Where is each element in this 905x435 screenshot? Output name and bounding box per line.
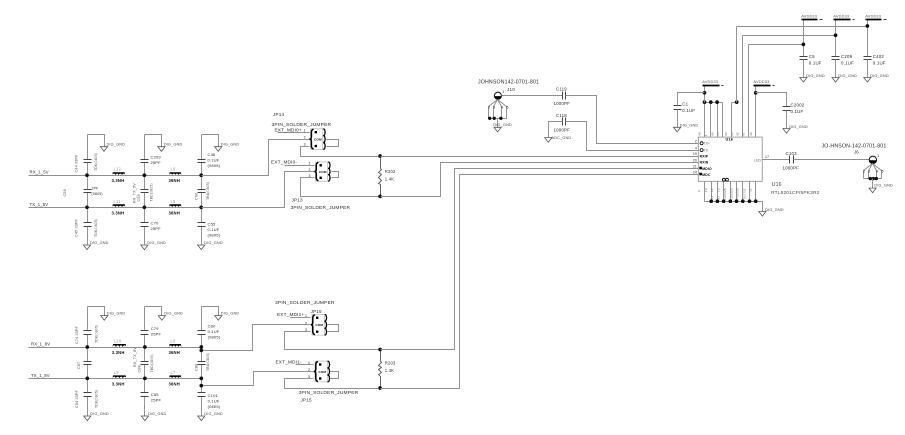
svg-text:0.1UF: 0.1UF [682,108,695,113]
ground top [100,143,125,152]
wire JP15 pin3 to MDI line [285,379,381,389]
svg-text:C84 33PF: C84 33PF [75,389,79,408]
svg-text:2: 2 [863,170,865,174]
svg-text:C85: C85 [151,392,159,397]
ground bottom [83,241,108,250]
svg-text:JP16: JP16 [311,309,322,314]
svg-text:DIG_GND: DIG_GND [221,143,240,147]
wire MDI0- to PHY [381,163,699,197]
svg-text:DIG_GND: DIG_GND [870,74,889,78]
capacitor C79 column [141,307,162,348]
svg-text:4: 4 [876,170,878,174]
svg-text:24: 24 [693,170,697,174]
svg-text:2: 2 [488,106,490,110]
svg-text:AVDD33: AVDD33 [801,14,817,19]
net stub EXT_MDI0+ [278,132,302,134]
svg-text:1000PF: 1000PF [554,101,571,106]
svg-text:TBD(0805): TBD(0805) [150,354,154,372]
ground top [101,312,126,321]
capacitor C88 between lines [141,348,149,379]
IC bottom pin wires and ground bus [705,182,763,212]
capacitor C44 column [84,135,105,176]
svg-text:TBD(0805): TBD(0805) [150,183,154,201]
ground top [158,143,183,152]
svg-text:48: 48 [698,132,702,136]
svg-text:2: 2 [309,168,311,172]
svg-text:C55: C55 [208,222,216,227]
resistor R202 [379,157,397,197]
ground at IC bottom bus [759,212,766,217]
wire MDI1+ to PHY [381,169,699,350]
svg-text:C6: C6 [809,54,815,59]
svg-text:C209: C209 [841,54,853,59]
svg-text:DIG_GND: DIG_GND [806,74,825,78]
svg-text:RX_1_8V: RX_1_8V [31,342,50,347]
svg-text:RX_TX_5V: RX_TX_5V [133,183,137,203]
ground at C402 [864,78,871,83]
svg-text:C48: C48 [208,152,216,157]
power flag AVDD33 at C6 [803,20,805,57]
svg-text:(0805): (0805) [208,335,221,340]
svg-text:2: 2 [304,136,306,140]
wire C103 to J6 [794,159,870,161]
wire J10 pin1 to C119 [502,95,563,97]
svg-text:AVDD33: AVDD33 [754,79,770,84]
wire MDI0+ to PHY [381,156,699,158]
svg-text:0.1UF: 0.1UF [208,399,220,404]
rail wires up from IC pins [736,27,738,103]
net stub EXT_MDI1+ [291,317,303,319]
capacitor C59 between lines [141,176,149,208]
svg-text:C79: C79 [151,326,159,331]
svg-text:C402: C402 [873,54,885,59]
ground at C1 [674,127,681,132]
junction dots [85,173,89,177]
junction dots [199,345,203,349]
svg-text:DIG_GND: DIG_GND [493,123,512,127]
svg-text:C80: C80 [208,324,216,329]
capacitor C60 between lines [198,176,206,208]
svg-text:L9: L9 [114,370,120,375]
svg-text:TDK(0805): TDK(0805) [94,219,98,237]
capacitor C101 to bottom ground [198,379,206,417]
junction dots [199,173,203,177]
svg-text:COM: COM [319,170,327,174]
ground bottom [141,412,166,421]
capacitor C103 [783,151,800,171]
capacitor C119 [554,87,571,107]
capacitor C49 column [141,135,162,176]
svg-text:JP13: JP13 [292,198,303,203]
svg-text:L10: L10 [114,339,122,344]
svg-text:3PIN_SOLDER_JUMPER: 3PIN_SOLDER_JUMPER [299,390,359,396]
svg-text:5: 5 [881,170,883,174]
svg-text:(0805): (0805) [92,192,103,196]
capacitor C402 [864,54,886,78]
svg-text:COM: COM [314,137,322,141]
junction dots R202 [378,154,382,158]
svg-text:C103: C103 [786,151,798,156]
wire bus A1 to JP14 pin2 [202,140,302,176]
inductor L9 [111,370,128,387]
net label RX_1_8V [29,347,88,349]
ground top [158,312,183,321]
svg-text:C58: C58 [63,189,67,196]
wire C119 to PHY pin [566,96,699,144]
wire bus A2 to JP13 pin2 [202,172,307,208]
svg-text:DIG_GND: DIG_GND [107,312,126,316]
svg-text:TX_1_8V: TX_1_8V [31,373,50,378]
svg-text:4: 4 [501,106,503,110]
svg-text:36NH: 36NH [169,350,180,355]
capacitor C1 branch [674,93,705,128]
svg-text:32: 32 [749,188,753,192]
svg-text:AVDD33: AVDD33 [702,79,718,84]
rail 3 [749,44,804,46]
junction dots R203 [378,348,382,352]
svg-text:L5: L5 [171,199,177,204]
net stub EXT_MDI1- [296,364,306,366]
svg-text:DIG_GND: DIG_GND [147,241,166,245]
svg-text:19: 19 [693,152,697,156]
svg-text:DIG_GND: DIG_GND [90,412,109,416]
svg-text:ADC_GND: ADC_GND [552,136,572,140]
svg-text:C2002: C2002 [791,102,805,107]
svg-text:DIG_GND: DIG_GND [107,143,126,147]
svg-text:2PF: 2PF [92,187,99,191]
svg-text:LED1: LED1 [729,192,733,200]
svg-text:MDC: MDC [702,173,711,177]
svg-text:TDK(0805): TDK(0805) [94,153,98,171]
wire C118 left to AGND [549,122,563,138]
svg-text:3PIN_SOLDER_JUMPER: 3PIN_SOLDER_JUMPER [272,122,332,128]
junction dots [85,345,89,349]
solder jumper JP13 symbol [307,162,339,182]
svg-text:3: 3 [305,328,307,332]
svg-text:COM: COM [318,370,326,374]
svg-text:C45 33PF: C45 33PF [75,218,79,237]
svg-text:44: 44 [724,132,728,136]
svg-text:45: 45 [716,132,720,136]
svg-text:(0805): (0805) [208,404,221,409]
ground bottom [141,241,166,250]
svg-text:DIG_GND: DIG_GND [164,312,183,316]
svg-text:R202: R202 [385,169,396,174]
ground at C6 [800,78,807,83]
svg-text:COM: COM [315,323,323,327]
svg-text:TX_1_5V: TX_1_5V [30,202,49,207]
capacitor C2002 branch [756,93,805,129]
svg-text:DIG_GND: DIG_GND [680,124,699,128]
op IC body U16 [698,137,762,181]
svg-text:5: 5 [506,106,508,110]
solder jumper JP16 symbol [303,314,339,335]
power flag AVDD33 at C209 [835,20,837,57]
svg-text:0.1UF: 0.1UF [873,61,886,66]
svg-text:DIG_GND: DIG_GND [789,125,808,129]
rail 2 [743,35,836,37]
svg-text:36NH: 36NH [169,381,180,386]
svg-text:X2: X2 [716,195,720,199]
svg-text:DIG_GND: DIG_GND [221,312,240,316]
svg-text:R203: R203 [385,361,396,366]
capacitor C85 to bottom ground [141,379,149,417]
svg-text:C74 33PF: C74 33PF [75,325,79,344]
power flag AVDD33 at C402 [867,20,869,57]
capacitor C84 to bottom ground [84,379,92,417]
capacitor C70 to bottom ground [141,208,149,246]
svg-text:1: 1 [309,162,311,166]
net stub EXT_MDI0- [285,165,307,167]
svg-text:3.3NH: 3.3NH [112,381,125,386]
svg-text:1.4K: 1.4K [385,177,394,182]
ground at C209 [832,78,839,83]
inductor L5 [168,199,184,216]
rail 1 [737,26,868,28]
svg-text:20: 20 [693,158,697,162]
svg-text:10: 10 [704,188,708,192]
inductor L8 [168,339,184,356]
solder jumper JP14 symbol [302,129,339,150]
svg-text:RX_TX_8V: RX_TX_8V [133,347,137,367]
IC bottom edge bubbles [722,178,725,181]
svg-text:4: 4 [695,146,697,150]
svg-text:C101: C101 [208,393,219,398]
svg-text:26: 26 [729,188,733,192]
wire bus B2 tap to JP15 pin2 [202,372,306,386]
wire bus B1 tap to JP16 pin2 [202,325,303,351]
junction dots [143,173,147,177]
capacitor C209 [832,54,854,78]
capacitor C80 column [198,307,219,348]
svg-text:17: 17 [765,155,769,159]
svg-text:3.3NH: 3.3NH [112,178,125,183]
svg-text:21: 21 [693,164,697,168]
svg-text:C89: C89 [195,364,199,371]
svg-text:DIG_GND: DIG_GND [874,184,893,188]
svg-text:AVDD33: AVDD33 [833,14,849,19]
svg-text:JP14: JP14 [273,112,284,117]
power flag AVDD33 right above IC [755,86,757,138]
svg-text:C119: C119 [556,87,567,92]
svg-text:RXIP: RXIP [700,155,709,159]
AVDD33 local bus right [732,102,737,104]
svg-text:DIG_GND: DIG_GND [204,241,223,245]
svg-text:1: 1 [502,90,504,94]
wire JP16 pin3 to MDI line [285,332,381,350]
svg-text:C70: C70 [151,221,159,226]
junction dots [143,345,147,349]
svg-text:MDIO: MDIO [702,167,712,171]
svg-text:EXT_MDI1-: EXT_MDI1- [276,360,302,365]
capacitor C48 column [198,135,219,176]
svg-text:3: 3 [868,170,870,174]
svg-text:42: 42 [736,132,740,136]
coax connector J10 [488,90,512,132]
svg-text:C59: C59 [137,194,141,201]
svg-text:3.3NH: 3.3NH [112,210,125,215]
svg-text:LED0: LED0 [723,192,727,200]
svg-text:JP15: JP15 [301,398,312,403]
power flag AVDD33 left above IC [704,86,706,103]
svg-text:1: 1 [877,154,879,158]
svg-text:JOHNSON142-0701-801: JOHNSON142-0701-801 [478,80,539,86]
svg-text:L11: L11 [114,199,122,204]
svg-text:TEST: TEST [742,192,746,200]
svg-text:1000PF: 1000PF [554,127,571,132]
svg-text:RTL8201CP/5PK3R2: RTL8201CP/5PK3R2 [771,190,820,196]
svg-text:(0805): (0805) [208,163,221,168]
svg-text:RSET: RSET [736,191,740,199]
wire C118 to PHY pin [566,122,699,151]
inductor L6 [168,167,184,184]
ground bottom [198,412,223,421]
svg-text:EXT_MDI0-: EXT_MDI0- [271,159,297,164]
svg-text:EXT_MDI0+: EXT_MDI0+ [275,127,302,132]
svg-text:C60: C60 [195,193,199,200]
wire MDI1- to PHY [381,175,699,389]
ground bottom [84,412,109,421]
svg-text:L7: L7 [171,370,177,375]
svg-text:31: 31 [742,188,746,192]
svg-text:LED: LED [754,158,761,162]
svg-text:DIG_GND: DIG_GND [148,412,167,416]
ground AGND at C118 [545,138,552,143]
svg-text:25PF: 25PF [151,160,162,165]
svg-text:1: 1 [308,361,310,365]
svg-text:0.1UF: 0.1UF [208,329,220,334]
svg-text:RX_1_5V: RX_1_5V [30,170,49,175]
capacitor C118 [554,113,571,133]
svg-text:C44 33PF: C44 33PF [75,154,79,173]
ground bottom [198,241,223,250]
inductor L12 [111,167,127,184]
svg-text:9: 9 [697,190,701,192]
svg-text:3: 3 [309,174,311,178]
svg-text:EXT_MDI1+: EXT_MDI1+ [277,312,304,317]
wire JP14 pin3 to MDI line [301,147,381,157]
svg-text:U16: U16 [772,182,782,188]
capacitor C58 between lines [84,176,92,208]
svg-text:RXIN: RXIN [700,161,709,165]
capacitor C55 to bottom ground [198,208,206,246]
svg-text:C209: C209 [151,155,162,160]
svg-text:TBD(0805): TBD(0805) [206,353,210,371]
solder jumper JP15 symbol [306,361,339,382]
svg-text:25PF: 25PF [151,332,162,337]
svg-text:3: 3 [493,106,495,110]
svg-text:TDK(0805): TDK(0805) [94,390,98,408]
ground top [215,312,240,321]
svg-text:C88: C88 [137,365,141,372]
svg-text:TBD(0805): TBD(0805) [206,182,210,200]
svg-text:C87: C87 [77,362,81,369]
svg-text:3PIN_SOLDER_JUMPER: 3PIN_SOLDER_JUMPER [275,300,335,306]
coax connector J6 [863,154,893,193]
net label TX_1_8V [29,378,88,380]
svg-text:3PIN_SOLDER_JUMPER: 3PIN_SOLDER_JUMPER [291,205,351,211]
svg-text:DIG_GND: DIG_GND [164,143,183,147]
svg-text:AVDD33: AVDD33 [865,14,881,19]
ground at C2002 [783,129,790,134]
svg-text:1.4K: 1.4K [385,368,394,373]
svg-text:L12: L12 [114,167,122,172]
net label TX_1_5V [29,207,88,209]
inductor L7 [168,370,184,387]
wire JP13 pin3 to MDI line [301,178,381,197]
svg-text:40: 40 [749,132,753,136]
inductor L11 [111,199,127,216]
inductor L10 [111,339,128,356]
capacitor C45 to bottom ground [84,208,92,246]
svg-text:0.1UF: 0.1UF [208,158,220,163]
svg-text:TX+: TX+ [704,142,710,146]
svg-text:DIG_GND: DIG_GND [765,208,784,212]
resistor R203 [379,350,397,389]
svg-text:3: 3 [308,375,310,379]
svg-text:DIG_GND: DIG_GND [90,241,109,245]
svg-text:DIG_GND: DIG_GND [204,412,223,416]
ground top [215,143,240,152]
svg-text:2: 2 [308,368,310,372]
AVDD33 local bus left [705,102,723,104]
svg-text:L8: L8 [171,339,177,344]
svg-text:2: 2 [305,321,307,325]
svg-text:25PF: 25PF [151,226,162,231]
svg-text:13: 13 [716,188,720,192]
svg-text:36NH: 36NH [169,178,180,183]
svg-text:1000PF: 1000PF [783,166,800,171]
svg-text:2: 2 [695,140,697,144]
capacitor C87 between lines [84,348,92,379]
svg-text:J6: J6 [854,150,859,155]
svg-text:11: 11 [710,188,714,192]
svg-text:0.1UF: 0.1UF [809,61,822,66]
IC left pin bubbles and names [699,142,712,177]
svg-text:0.1UF: 0.1UF [791,109,804,114]
svg-text:41: 41 [741,132,745,136]
svg-text:25: 25 [723,188,727,192]
svg-text:1: 1 [304,129,306,133]
svg-text:3.3NH: 3.3NH [112,350,125,355]
svg-text:J10: J10 [507,87,515,92]
svg-text:1: 1 [305,314,307,318]
svg-text:L6: L6 [171,167,177,172]
capacitor C89 between lines [198,348,206,379]
svg-text:3: 3 [304,142,306,146]
svg-text:36NH: 36NH [169,210,180,215]
svg-text:DIG_GND: DIG_GND [838,74,857,78]
svg-text:0.1UF: 0.1UF [208,227,220,232]
svg-text:TX-: TX- [704,148,710,152]
svg-text:X1: X1 [710,195,714,199]
svg-text:(0805): (0805) [208,233,221,238]
net label RX_1_5V [29,175,88,177]
svg-text:TDK(0805): TDK(0805) [94,325,98,343]
svg-text:25PF: 25PF [151,398,162,403]
svg-text:C118: C118 [556,113,567,118]
top pin wires short [704,103,706,138]
svg-text:C1: C1 [682,101,688,106]
svg-text:0.1UF: 0.1UF [841,61,854,66]
svg-text:U16: U16 [726,137,734,141]
capacitor C6 [800,54,822,78]
capacitor C74 column [84,307,105,348]
